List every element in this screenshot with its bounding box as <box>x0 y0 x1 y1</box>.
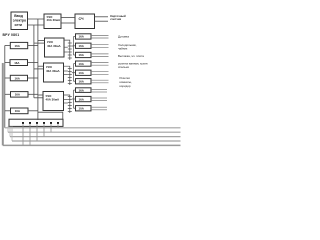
svg-text:электро: электро <box>13 18 26 22</box>
svg-text:16А: 16А <box>15 76 21 80</box>
svg-text:10А: 10А <box>79 62 85 66</box>
svg-text:коридор: коридор <box>120 84 131 88</box>
svg-text:16А: 16А <box>14 61 20 65</box>
svg-text:16А: 16А <box>79 35 85 39</box>
svg-text:16А: 16А <box>15 93 21 97</box>
svg-text:счетчик: счетчик <box>110 17 121 21</box>
svg-text:чайник: чайник <box>118 47 128 51</box>
svg-text:спальня: спальня <box>118 65 129 69</box>
svg-text:10А: 10А <box>79 107 85 111</box>
svg-text:сети: сети <box>15 23 22 27</box>
svg-text:10А: 10А <box>79 71 85 75</box>
svg-text:16А: 16А <box>79 97 85 101</box>
svg-text:16А: 16А <box>15 44 21 48</box>
svg-text:40А 30мА: 40А 30мА <box>47 44 61 48</box>
svg-text:40А 30мА: 40А 30мА <box>47 18 61 22</box>
svg-text:40А 30мА: 40А 30мА <box>46 98 60 102</box>
svg-text:СЧ: СЧ <box>79 17 85 21</box>
svg-text:Духовка: Духовка <box>118 35 129 39</box>
svg-text:16А: 16А <box>79 88 85 92</box>
svg-text:Вытяжка, эл. плита: Вытяжка, эл. плита <box>118 54 144 58</box>
svg-text:16А: 16А <box>79 44 85 48</box>
svg-text:16А: 16А <box>79 80 85 84</box>
svg-text:40А 30мА: 40А 30мА <box>46 69 60 73</box>
svg-text:10А: 10А <box>15 109 21 113</box>
svg-text:16А: 16А <box>79 53 85 57</box>
svg-text:Ввод: Ввод <box>14 14 24 18</box>
svg-text:ВРУ 0801: ВРУ 0801 <box>3 33 20 37</box>
